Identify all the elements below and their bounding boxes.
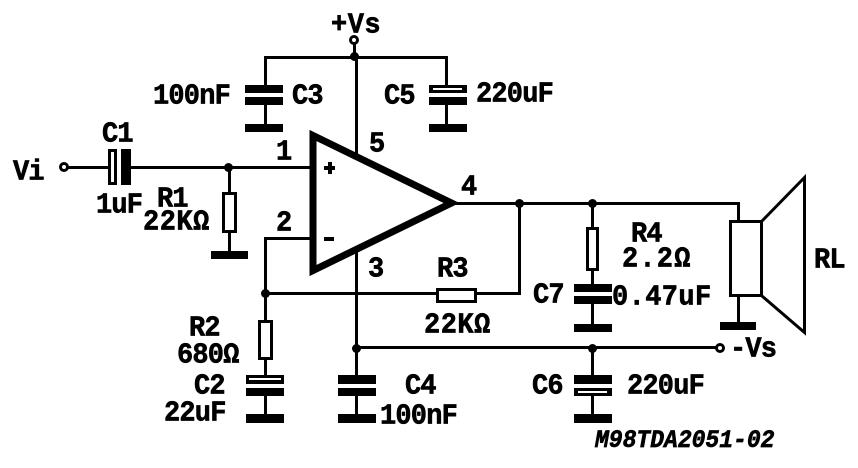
- label +Vs: [331, 12, 381, 41]
- label 1uF: [96, 192, 142, 221]
- ground under R1: [211, 251, 248, 259]
- wire pin 3: [355, 248, 358, 349]
- capacitor C7: [574, 284, 612, 292]
- label 100nF: [153, 83, 230, 112]
- op-amp minus input mark: [324, 237, 334, 241]
- pin 3 label: [368, 256, 383, 285]
- pin 1 label: [276, 139, 291, 168]
- pin 5 label: [369, 131, 384, 160]
- capacitor C3: [264, 57, 267, 86]
- ground under C2: [246, 414, 284, 423]
- node junction input/R1: [224, 163, 233, 172]
- wire C1 to op-amp pin 1: [131, 166, 313, 169]
- wire speaker to ground: [737, 296, 740, 323]
- wire output to speaker: [737, 202, 740, 221]
- wire +Vs stub: [353, 44, 356, 57]
- label C2: [194, 373, 225, 402]
- node junction output/feedback: [515, 199, 524, 208]
- label C5: [384, 83, 415, 112]
- node junction pin2/R2/R3: [261, 289, 270, 298]
- node junction top rail: [350, 52, 359, 61]
- ground under C3: [245, 124, 283, 132]
- node junction rail/C6: [588, 344, 597, 353]
- label R4: [631, 221, 662, 250]
- wire Vi to C1: [68, 166, 109, 169]
- label 2.2Ω: [622, 246, 692, 275]
- label C3: [292, 83, 323, 112]
- label 22KΩ: [143, 209, 210, 238]
- label C6: [532, 373, 563, 402]
- label C7: [533, 282, 564, 311]
- wire pin 2 vertical: [264, 237, 267, 295]
- node +Vs terminal: [349, 35, 359, 45]
- node Vi input terminal: [59, 162, 69, 172]
- capacitor C5: [445, 57, 448, 86]
- ground under C6: [574, 414, 612, 423]
- label 0.47uF: [612, 284, 712, 313]
- wire feedback left: [264, 292, 438, 295]
- label R1: [157, 186, 188, 215]
- wire bottom rail to -Vs: [355, 346, 716, 349]
- ground under C4: [338, 414, 376, 423]
- label 680Ω: [177, 342, 239, 371]
- node -Vs terminal: [715, 343, 725, 353]
- ground under speaker: [720, 322, 756, 330]
- wire pin 5: [355, 57, 358, 160]
- node junction pin3/rail: [352, 344, 361, 353]
- label C1: [102, 121, 133, 150]
- resistor R2: [264, 294, 267, 321]
- label M98TDA2051-02: [595, 429, 774, 454]
- label C4: [405, 373, 436, 402]
- wire feedback right: [475, 292, 521, 295]
- label RL: [814, 247, 845, 276]
- label Vi: [13, 159, 44, 188]
- capacitor C6: [591, 348, 594, 376]
- label 220uF: [476, 81, 553, 110]
- pin 4 label: [461, 174, 476, 203]
- label R2: [189, 315, 220, 344]
- speaker RL: [729, 220, 763, 297]
- resistor R4: [591, 202, 594, 228]
- capacitor C1: [108, 149, 117, 185]
- label -Vs: [730, 336, 776, 365]
- label 220uF: [627, 373, 704, 402]
- wire feedback vertical: [518, 203, 521, 295]
- resistor R3: [436, 288, 477, 303]
- label 22uF: [164, 400, 226, 429]
- node junction output/R4: [588, 199, 597, 208]
- wire pin 2 stub: [264, 237, 313, 240]
- label 22KΩ: [424, 312, 491, 341]
- resistor R1: [228, 167, 231, 192]
- pin 2 label: [276, 210, 291, 239]
- ground under C7: [574, 324, 612, 332]
- wire output pin 4: [455, 202, 740, 205]
- label R3: [437, 256, 468, 285]
- label 100nF: [380, 403, 457, 432]
- ground under C5: [429, 124, 467, 132]
- capacitor C2: [246, 375, 284, 384]
- capacitor C4: [355, 348, 358, 376]
- op-amp plus input mark: [324, 166, 335, 170]
- wire top rail: [264, 56, 448, 59]
